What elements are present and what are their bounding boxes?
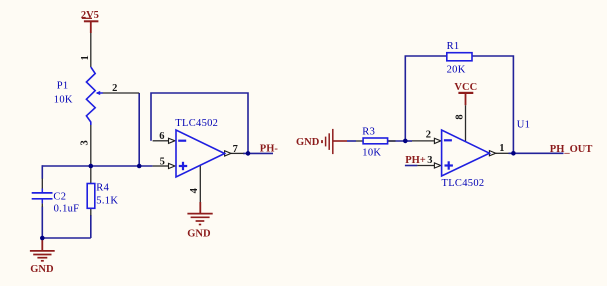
svg-text:PH+: PH+	[405, 155, 426, 166]
svg-text:3: 3	[427, 155, 432, 166]
svg-text:PH_OUT: PH_OUT	[550, 144, 593, 155]
svg-text:3: 3	[79, 140, 90, 145]
svg-text:1: 1	[80, 55, 91, 60]
svg-text:4: 4	[189, 187, 200, 193]
svg-text:P1: P1	[57, 81, 69, 92]
svg-text:0.1uF: 0.1uF	[54, 203, 80, 214]
svg-text:GND: GND	[187, 228, 211, 239]
svg-text:VCC: VCC	[454, 82, 477, 93]
svg-text:8: 8	[455, 114, 466, 119]
svg-text:R4: R4	[96, 183, 109, 194]
svg-text:5.1K: 5.1K	[96, 195, 118, 206]
svg-text:GND: GND	[30, 264, 54, 275]
svg-text:2: 2	[426, 130, 431, 141]
svg-text:2V5: 2V5	[81, 10, 99, 21]
svg-text:GND: GND	[296, 137, 320, 148]
svg-text:1: 1	[499, 143, 504, 154]
svg-text:6: 6	[159, 131, 164, 142]
svg-text:R1: R1	[447, 41, 460, 52]
svg-text:U1: U1	[517, 120, 530, 131]
svg-text:R3: R3	[362, 126, 375, 137]
svg-text:PH-: PH-	[260, 143, 279, 154]
svg-text:7: 7	[233, 144, 238, 155]
svg-text:20K: 20K	[447, 65, 466, 76]
svg-text:C2: C2	[53, 191, 66, 202]
svg-text:TLC4502: TLC4502	[442, 178, 485, 189]
svg-text:10K: 10K	[54, 94, 73, 105]
svg-text:TLC4502: TLC4502	[175, 118, 218, 129]
svg-text:5: 5	[160, 157, 165, 168]
svg-text:10K: 10K	[362, 147, 381, 158]
svg-text:2: 2	[112, 83, 117, 94]
